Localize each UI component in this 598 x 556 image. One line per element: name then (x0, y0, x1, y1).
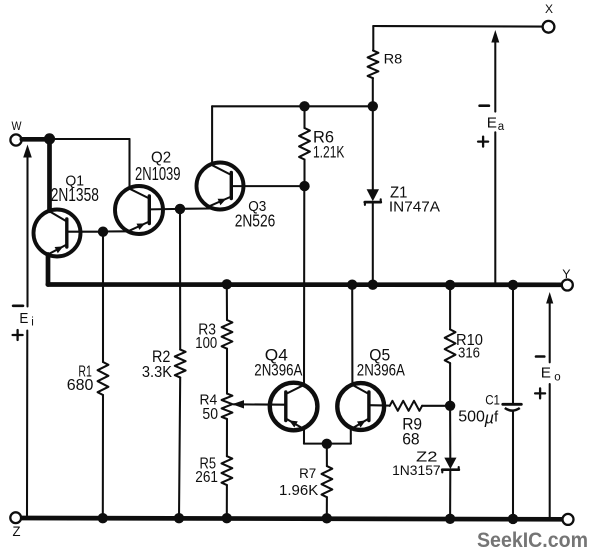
arrow Eo (546, 292, 553, 517)
capacitor C1 500uf (458, 393, 521, 428)
svg-text:E: E (541, 365, 551, 382)
wire R8 bottom to node (372, 78, 374, 106)
svg-text:E: E (487, 115, 497, 132)
node C1 at rail Z (508, 514, 518, 524)
svg-text:o: o (554, 371, 560, 383)
label Ea (487, 115, 505, 133)
resistor R1 (67, 362, 109, 395)
node Q3 base junction (299, 181, 309, 191)
node Q1 base / Q2 emitter junction (98, 227, 108, 237)
label Ei (19, 310, 33, 328)
svg-text:1N3157: 1N3157 (392, 462, 441, 478)
transistor Q1 2N1358 (34, 173, 99, 257)
svg-text:2N526: 2N526 (235, 211, 276, 231)
resistor R4 potentiometer (200, 392, 233, 424)
terminal Z (10, 512, 21, 539)
svg-text:R7: R7 (299, 465, 316, 481)
zener Z1 1N747A (365, 185, 440, 216)
svg-text:1.21K: 1.21K (313, 143, 344, 161)
node R10 at rail Y (445, 280, 455, 290)
resistor R8 (368, 50, 403, 78)
svg-text:500: 500 (458, 409, 485, 426)
svg-text:X: X (545, 4, 553, 16)
wire emitter join horizontal (304, 443, 351, 445)
wire Q2 collector vertical (128, 139, 130, 189)
wire R8 top segment (372, 26, 374, 51)
label Eo (541, 365, 561, 384)
svg-text:680: 680 (67, 377, 94, 394)
svg-text:2N1039: 2N1039 (135, 164, 181, 184)
wire W junction to Q2 collector corner (50, 138, 130, 140)
node R1 at rail Z (98, 513, 108, 523)
resistor R7 (279, 465, 332, 499)
wire R6 column down to Q4 collector (303, 186, 305, 385)
terminal Y (562, 267, 573, 291)
wire W lead (thick) (22, 137, 50, 142)
resistor R2 (142, 348, 186, 381)
svg-text:E: E (19, 310, 28, 327)
arrow Ea (491, 30, 499, 284)
node R6 top junction (299, 101, 309, 111)
terminal bottom-right (563, 514, 574, 525)
svg-text:261: 261 (195, 469, 218, 486)
svg-text:W: W (12, 121, 22, 133)
svg-text:316: 316 (458, 345, 480, 361)
node Z2 at rail Z (445, 514, 455, 524)
transistor Q2 2N1039 (115, 150, 181, 234)
label Ei minus (13, 304, 23, 307)
wire R4 wiper to Q4 base (232, 400, 286, 408)
svg-text:2N396A: 2N396A (254, 360, 303, 379)
arrow Ei (23, 145, 32, 516)
node C1 at rail Y (508, 280, 518, 290)
node Z1 at rail Y (368, 280, 378, 290)
label Ea minus (480, 104, 489, 107)
svg-text:Z: Z (13, 524, 21, 539)
node R8/Z1/line junction (368, 101, 378, 111)
watermark SeekIC.com (477, 528, 588, 552)
resistor R9 (390, 401, 422, 449)
resistor R3 (195, 320, 232, 352)
wire Z2 top lead (449, 406, 451, 459)
transistor Q4 2N396A (254, 347, 317, 431)
svg-text:Y: Y (562, 267, 570, 281)
wire Q5 collector vertical (351, 285, 353, 385)
wire R7 bottom lead (326, 497, 328, 518)
svg-text:a: a (498, 121, 505, 133)
wire R5 bottom lead (226, 485, 228, 518)
wire top rail R8 to X (373, 25, 542, 28)
node W junction (44, 133, 55, 144)
node R5 at rail Z (222, 513, 232, 523)
node R7 at rail Z (322, 513, 332, 523)
label Ei plus (13, 330, 23, 340)
wire R10 top lead (449, 285, 451, 330)
wire Q1 emitter down elbow (thick) (46, 255, 51, 285)
wire Q2 base lead (149, 208, 180, 211)
terminal W (10, 121, 21, 146)
label Eo plus (535, 388, 545, 398)
wire R7 top lead (326, 444, 328, 466)
wire thick W junction down to Q1 collector (47, 139, 52, 211)
wire R2 bottom lead (179, 378, 180, 519)
zener Z2 1N3157 (392, 448, 459, 478)
label Ea plus (478, 137, 488, 147)
svg-text:R8: R8 (384, 50, 403, 66)
wire R9 to junction (422, 405, 450, 407)
wire Q2 emitter lead (103, 230, 129, 232)
wire Q5 base lead (369, 404, 390, 406)
svg-text:C1: C1 (485, 393, 500, 408)
wire R6 top lead (303, 106, 305, 128)
wire Q3 emitter lead (180, 207, 210, 209)
wire R3 top lead (226, 284, 228, 320)
wire R1 bottom lead (102, 395, 104, 518)
wire Z2 bottom lead (449, 470, 451, 519)
wire C1 top lead (512, 285, 514, 405)
svg-text:2N1358: 2N1358 (51, 185, 99, 205)
svg-text:µ: µ (484, 410, 495, 428)
wire R10 bottom lead (449, 363, 451, 406)
node Q5 collector at rail Y (347, 280, 357, 290)
wire rail Y (thick) (48, 282, 562, 287)
svg-text:2N396A: 2N396A (357, 360, 406, 379)
node emitter join / R7 top (322, 439, 332, 449)
svg-text:i: i (31, 317, 34, 329)
terminal X (543, 4, 555, 33)
wire R6 bottom lead (303, 160, 305, 187)
svg-text:IN747A: IN747A (389, 199, 440, 216)
resistor R6 (299, 128, 344, 161)
svg-text:SeekIC.com: SeekIC.com (477, 528, 588, 552)
svg-text:100: 100 (195, 335, 217, 352)
node R2 at rail Z (174, 513, 184, 523)
wire Q4 emitter down (303, 429, 305, 444)
svg-text:68: 68 (402, 431, 419, 449)
transistor Q3 2N526 (197, 163, 276, 231)
wire R4-R5 lead (226, 419, 228, 456)
node R9/R10/Z2 junction (445, 401, 455, 411)
wire Q3 collector vertical (211, 106, 213, 165)
node Q2 base / Q3 emitter junction (175, 204, 185, 214)
wire Q3 base lead (231, 185, 304, 187)
svg-text:3.3K: 3.3K (142, 364, 172, 381)
label Eo minus (536, 355, 544, 358)
wire R2 top lead (179, 209, 181, 350)
wire rail Z (thick) (21, 518, 562, 519)
wire C1 bottom lead (512, 411, 514, 519)
resistor R10 (445, 329, 483, 363)
transistor Q5 2N396A (337, 347, 405, 430)
wire Z1 top lead (372, 106, 374, 190)
svg-text:50: 50 (202, 406, 218, 423)
wire Z1 bottom lead (372, 202, 374, 285)
svg-text:1.96K: 1.96K (279, 482, 318, 499)
svg-text:f: f (494, 409, 499, 426)
wire R3-R4 lead (226, 349, 228, 394)
node R3 column at rail Y (222, 279, 232, 289)
wire horizontal collector bus y106 (212, 105, 373, 107)
resistor R5 (195, 456, 232, 486)
wire Q1 base lead (67, 231, 103, 233)
wire R1 top lead (102, 232, 104, 362)
wire Q5 emitter down (350, 429, 352, 444)
